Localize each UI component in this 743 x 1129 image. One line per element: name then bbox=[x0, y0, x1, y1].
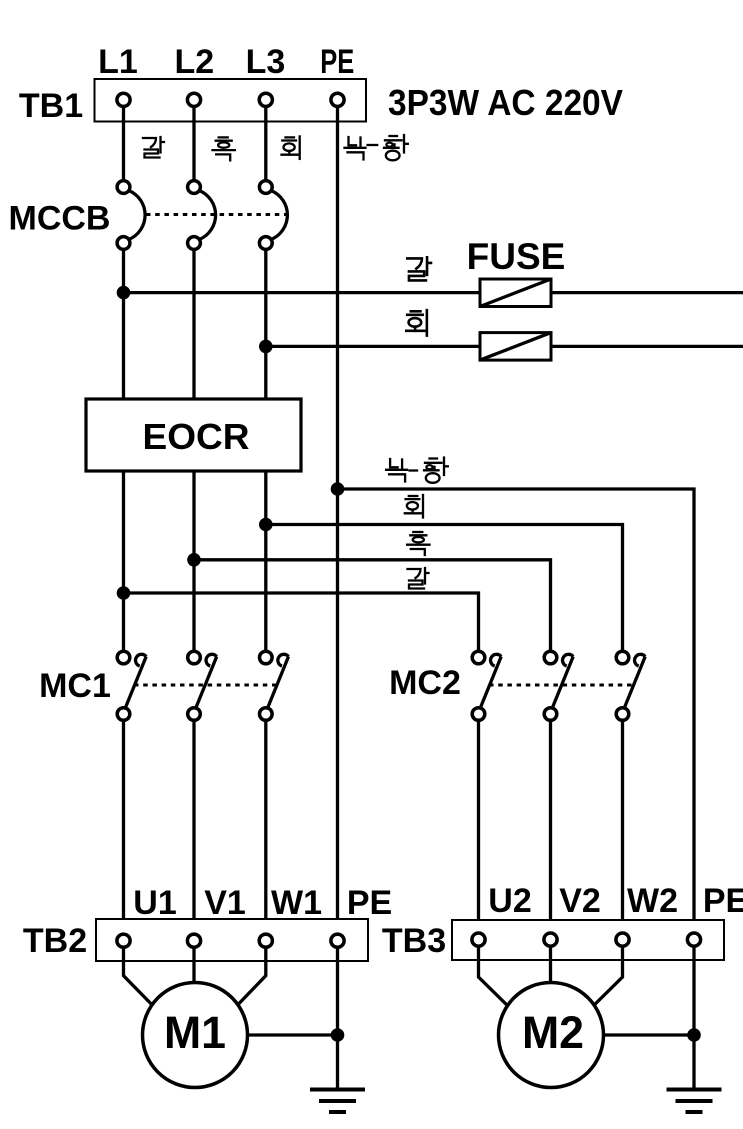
wire MC2 pole1 to TB3 bbox=[477, 720, 480, 940]
terminal block TB1 box bbox=[95, 79, 367, 122]
terminal TB2 V1 bbox=[187, 934, 200, 947]
terminal TB1 PE bbox=[331, 93, 344, 106]
wire MC2 pole3 to TB3 bbox=[621, 720, 624, 940]
ground symbol M1 bbox=[310, 1090, 365, 1113]
contactor MC2 dashed link bbox=[489, 684, 633, 687]
wire MC1 pole2 to TB2 bbox=[192, 720, 195, 941]
motor M1 bbox=[143, 983, 248, 1088]
wire motor M1 to PE bbox=[230, 1033, 338, 1036]
contactor MC2 pole 2 bbox=[544, 651, 573, 720]
svg-text:U1: U1 bbox=[133, 884, 176, 922]
junction dot L3 fuse branch bbox=[259, 340, 273, 354]
svg-text:W2: W2 bbox=[627, 882, 678, 920]
contactor MC1 pole 2 bbox=[188, 651, 217, 720]
wire color label 갈 (branch) bbox=[408, 568, 429, 589]
wire U2 to motor M2 bbox=[479, 947, 519, 1016]
terminal TB3 W2 bbox=[616, 933, 629, 946]
terminal TB2 W1 bbox=[259, 934, 272, 947]
junction dot M1 PE bbox=[331, 1028, 345, 1042]
wire PE TB1 to TB2 bbox=[336, 100, 339, 941]
breaker MCCB pole 3 bbox=[259, 181, 287, 250]
fuse F1 bbox=[480, 279, 551, 307]
wire L2 MCCB to EOCR bbox=[192, 249, 195, 399]
breaker MCCB pole 2 bbox=[188, 181, 216, 250]
wire MC1 pole3 to TB2 bbox=[264, 720, 267, 941]
wire color label 갈 (fuse 1) bbox=[407, 257, 431, 280]
terminal TB1 L3 bbox=[259, 93, 272, 106]
svg-text:M2: M2 bbox=[522, 1007, 584, 1058]
breaker MCCB pole 1 bbox=[117, 181, 145, 250]
junction dot PE branch bbox=[331, 482, 345, 496]
svg-text:TB2: TB2 bbox=[23, 922, 87, 960]
wire 흑 branch to MC2 bbox=[194, 560, 551, 658]
terminal TB3 V2 bbox=[544, 933, 557, 946]
wire color label 흑 bbox=[213, 137, 235, 160]
relay EOCR box bbox=[86, 399, 301, 471]
svg-text:3P3W AC 220V: 3P3W AC 220V bbox=[388, 82, 623, 123]
wire V1 to motor M1 bbox=[192, 947, 195, 990]
wire PE TB2 to ground bbox=[336, 947, 339, 1090]
svg-text:MC2: MC2 bbox=[389, 664, 461, 702]
svg-text:TB3: TB3 bbox=[382, 922, 446, 960]
terminal TB1 L2 bbox=[187, 93, 200, 106]
wire color label 회 (branch) bbox=[405, 495, 423, 518]
wire fuse line 2 bbox=[266, 345, 743, 348]
ground symbol M2 bbox=[667, 1090, 722, 1113]
wire L3 MCCB to EOCR bbox=[264, 249, 267, 399]
junction dot M2 PE bbox=[687, 1028, 701, 1042]
wire color label 녹-황 bbox=[345, 135, 408, 160]
svg-text:EOCR: EOCR bbox=[143, 416, 250, 457]
svg-text:U2: U2 bbox=[488, 882, 531, 920]
svg-text:L2: L2 bbox=[174, 43, 214, 81]
breaker MCCB dashed link bbox=[146, 213, 288, 216]
junction dot L2 branch bbox=[187, 553, 201, 567]
wire L1 MCCB to EOCR bbox=[122, 249, 125, 399]
terminal TB2 PE bbox=[331, 934, 344, 947]
junction dot L3 branch bbox=[259, 518, 273, 532]
wire MC1 pole1 to TB2 bbox=[122, 720, 125, 941]
contactor MC1 pole 1 bbox=[117, 651, 146, 720]
terminal TB3 U2 bbox=[472, 933, 485, 946]
wire L1 TB1 to MCCB bbox=[122, 100, 125, 187]
wire color label 회 (fuse 2) bbox=[406, 310, 427, 335]
wire W1 to motor M1 bbox=[227, 947, 266, 1016]
wire L3 EOCR to MC1 bbox=[264, 471, 267, 658]
wire L2 TB1 to MCCB bbox=[192, 100, 195, 187]
terminal block TB2 box bbox=[96, 919, 368, 961]
motor M2 bbox=[499, 983, 604, 1088]
svg-text:MCCB: MCCB bbox=[9, 200, 111, 238]
svg-text:V2: V2 bbox=[559, 882, 601, 920]
svg-text:TB1: TB1 bbox=[19, 87, 83, 125]
contactor MC1 pole 3 bbox=[260, 651, 289, 720]
contactor MC2 pole 1 bbox=[472, 651, 501, 720]
svg-text:PE: PE bbox=[320, 43, 354, 81]
wire motor M2 to PE bbox=[586, 1033, 694, 1036]
wire color label 갈 bbox=[143, 137, 164, 158]
svg-text:PE: PE bbox=[703, 882, 743, 920]
svg-text:MC1: MC1 bbox=[39, 667, 111, 705]
contactor MC1 dashed link bbox=[134, 684, 278, 687]
wire U1 to motor M1 bbox=[124, 947, 164, 1016]
wire PE TB3 to ground bbox=[692, 947, 695, 1090]
wire L3 TB1 to MCCB bbox=[264, 100, 267, 187]
wire MC2 pole2 to TB3 bbox=[549, 720, 552, 940]
contactor MC2 pole 3 bbox=[616, 651, 645, 720]
terminal block TB3 box bbox=[452, 920, 724, 960]
wire 녹-황 branch to TB3 PE bbox=[338, 489, 695, 941]
wire color label 흑 (branch) bbox=[407, 532, 429, 555]
wire 회 branch to MC2 bbox=[266, 525, 623, 658]
svg-text:M1: M1 bbox=[164, 1007, 226, 1058]
svg-text:W1: W1 bbox=[271, 884, 322, 922]
junction dot L1 branch bbox=[117, 586, 131, 600]
wire color label 회 bbox=[282, 136, 300, 159]
wire L2 EOCR to MC1 bbox=[192, 471, 195, 658]
svg-text:L1: L1 bbox=[98, 43, 138, 81]
wire color label 녹-황 (branch) bbox=[386, 458, 448, 483]
wire V2 to motor M2 bbox=[549, 947, 552, 990]
svg-text:V1: V1 bbox=[204, 884, 246, 922]
svg-text:FUSE: FUSE bbox=[467, 236, 566, 277]
junction dot L1 fuse branch bbox=[117, 286, 131, 300]
terminal TB3 PE bbox=[687, 933, 700, 946]
svg-text:PE: PE bbox=[347, 884, 392, 922]
fuse F2 bbox=[480, 333, 551, 361]
wire fuse line 1 bbox=[124, 291, 743, 294]
svg-text:L3: L3 bbox=[246, 43, 286, 81]
wire 갈 branch to MC2 bbox=[124, 593, 479, 658]
terminal TB2 U1 bbox=[117, 934, 130, 947]
wire L1 EOCR to MC1 bbox=[122, 471, 125, 658]
terminal TB1 L1 bbox=[117, 93, 130, 106]
wire W2 to motor M2 bbox=[583, 947, 623, 1016]
